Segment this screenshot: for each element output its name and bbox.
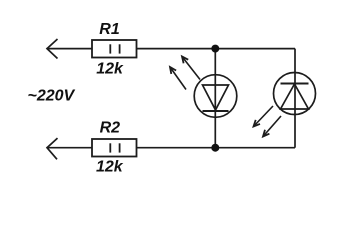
svg-text:~220V: ~220V bbox=[28, 88, 76, 105]
svg-text:R1: R1 bbox=[99, 21, 120, 38]
svg-text:12k: 12k bbox=[96, 159, 124, 176]
junction node bottom bbox=[211, 144, 219, 152]
wire bottom rail bbox=[47, 147, 296, 149]
terminal arrow top-left bbox=[47, 39, 58, 59]
LED D2 light arrows bbox=[254, 106, 282, 137]
svg-text:R2: R2 bbox=[100, 120, 121, 137]
LED D1 bbox=[194, 75, 237, 118]
wire top rail bbox=[47, 48, 296, 50]
wire right branch vertical bbox=[294, 49, 296, 148]
resistor R2 bbox=[92, 139, 137, 157]
LED D1 light arrows bbox=[170, 57, 200, 90]
terminal arrow bottom-left bbox=[47, 138, 58, 159]
resistor R1 bbox=[92, 40, 137, 58]
svg-text:12k: 12k bbox=[96, 61, 124, 78]
wire LED branch vertical bbox=[214, 49, 216, 148]
junction node top bbox=[211, 45, 219, 53]
LED D2 bbox=[274, 73, 316, 115]
